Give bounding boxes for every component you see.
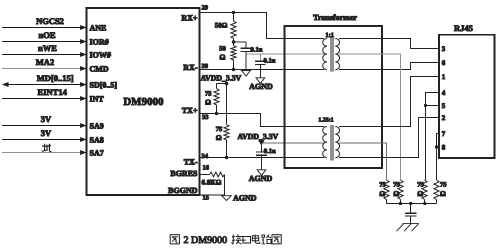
svg-text:5: 5 bbox=[442, 102, 446, 110]
signal nOE bbox=[2, 30, 87, 44]
svg-text:SD[0..5]: SD[0..5] bbox=[90, 81, 118, 90]
RJ45 connector box bbox=[439, 35, 495, 158]
RJ45 pin 1 bbox=[442, 73, 446, 81]
svg-text:Ω: Ω bbox=[220, 52, 226, 61]
RJ45 pin 7 bbox=[442, 130, 446, 138]
signal 3V (SA8) bbox=[2, 128, 87, 142]
transformer T1 secondary winding bbox=[335, 39, 339, 70]
capacitor C3 0.1u bbox=[256, 146, 276, 170]
U1 pin label BGGND bbox=[168, 186, 198, 195]
ground AGND at BGGND bbox=[222, 193, 257, 202]
wire R7 to bus bbox=[400, 200, 402, 204]
svg-text:DM9000: DM9000 bbox=[123, 96, 163, 108]
wire AVDD to R4 (crosses TX+) bbox=[226, 84, 228, 125]
IC U1 DM9000 body bbox=[87, 8, 200, 195]
wire RX+ pin29 to transformer T1 primary top bbox=[200, 13, 325, 39]
svg-text:TX+: TX+ bbox=[182, 106, 198, 115]
svg-text:75: 75 bbox=[205, 91, 212, 98]
wire R1 bottom stub bbox=[233, 39, 235, 43]
svg-text:6.8KΩ: 6.8KΩ bbox=[202, 179, 222, 187]
U1 pin number 16 bbox=[203, 164, 210, 171]
svg-text:0.1u: 0.1u bbox=[264, 58, 276, 65]
wire RX- pin30 to transformer T1 primary bottom bbox=[200, 69, 325, 71]
signal EINT14 bbox=[2, 87, 87, 101]
power tap arrow bbox=[258, 140, 264, 145]
wire termination bus bbox=[387, 203, 437, 205]
RJ45 pin 4 bbox=[442, 89, 446, 97]
U1 pin number 29 bbox=[202, 5, 209, 12]
ground AGND under C3 bbox=[249, 170, 273, 183]
bus MD[0..15] bbox=[2, 73, 87, 87]
junction node AVDD tap bbox=[225, 82, 229, 86]
svg-text:34: 34 bbox=[202, 153, 209, 160]
transformer T2 ratio label 1.25:1 bbox=[318, 118, 333, 124]
svg-text:75: 75 bbox=[379, 181, 386, 188]
resistor R8 75 ohm bbox=[417, 180, 427, 200]
capacitor C1 0.1u bbox=[241, 42, 263, 71]
RJ45 pin 8 bbox=[442, 144, 446, 152]
svg-text:50Ω: 50Ω bbox=[215, 21, 228, 29]
svg-text:8: 8 bbox=[442, 144, 446, 152]
junction node TX+ / R3 bbox=[215, 112, 218, 115]
wire T1 secondary bottom to RJ45 pin6 bbox=[339, 63, 439, 70]
junction node RX+ / R1 bbox=[232, 11, 235, 14]
svg-text:50: 50 bbox=[219, 45, 226, 52]
wire R1 top stub bbox=[233, 13, 235, 22]
svg-text:16: 16 bbox=[203, 164, 210, 171]
svg-text:Ω: Ω bbox=[205, 99, 211, 107]
transformer T1 primary winding bbox=[323, 39, 327, 70]
capacitor C2 0.1u bbox=[255, 54, 276, 78]
svg-text:Ω: Ω bbox=[379, 190, 385, 198]
U1 pin label ANE bbox=[90, 24, 107, 33]
U1 pin number 33 bbox=[202, 114, 209, 121]
svg-text:INT: INT bbox=[90, 95, 105, 104]
wire BGGND pin15 stub bbox=[200, 194, 225, 196]
wire R5 to BGGND bbox=[224, 175, 226, 196]
svg-text:AVDD_3.3V: AVDD_3.3V bbox=[238, 132, 279, 141]
svg-text:75: 75 bbox=[417, 181, 424, 188]
U1 pin number 15 bbox=[203, 194, 210, 201]
signal NGCS2 bbox=[2, 16, 87, 30]
wire T2 secondary center tap to R6 bbox=[339, 143, 387, 180]
svg-text:2 DM9000: 2 DM9000 bbox=[184, 235, 228, 246]
U1 pin label TX- bbox=[184, 158, 198, 167]
svg-text:RX-: RX- bbox=[183, 63, 198, 72]
svg-text:29: 29 bbox=[202, 5, 209, 12]
wire T2 primary center tap bbox=[262, 142, 325, 144]
svg-text:1.25:1: 1.25:1 bbox=[318, 118, 333, 124]
svg-text:RJ45: RJ45 bbox=[454, 23, 473, 33]
U1 pin label SA8 bbox=[90, 136, 104, 145]
svg-text:SA8: SA8 bbox=[90, 136, 104, 145]
U1 pin label RX- bbox=[183, 63, 198, 72]
caption 图2 DM9000 接口电路图 bbox=[170, 235, 281, 247]
svg-text:CMD: CMD bbox=[90, 65, 109, 74]
svg-text:SA9: SA9 bbox=[90, 122, 104, 131]
svg-text:Ω: Ω bbox=[216, 134, 222, 142]
svg-text:AVDD_3.3V: AVDD_3.3V bbox=[201, 73, 242, 82]
svg-text:2: 2 bbox=[442, 114, 446, 122]
svg-text:IOW#: IOW# bbox=[90, 51, 111, 60]
RJ45 pin 6 bbox=[442, 59, 446, 67]
transformer T2 primary winding bbox=[323, 127, 327, 158]
resistor R9 75 ohm bbox=[434, 180, 447, 200]
svg-text:nOE: nOE bbox=[38, 30, 55, 40]
svg-text:BGGND: BGGND bbox=[168, 186, 198, 195]
IC U1 label DM9000 bbox=[123, 96, 163, 108]
resistor R5 6.8K bbox=[202, 172, 225, 187]
transformer T1 core bbox=[331, 36, 333, 71]
svg-text:nWE: nWE bbox=[38, 43, 57, 53]
wire R9 to bus bbox=[436, 200, 438, 204]
U1 pin label BGRES bbox=[170, 169, 198, 178]
wire R8 to bus bbox=[424, 200, 426, 204]
ground AGND under C2 bbox=[249, 78, 273, 91]
svg-text:SA7: SA7 bbox=[90, 149, 104, 158]
svg-text:7: 7 bbox=[442, 130, 446, 138]
resistor R6 75 ohm bbox=[379, 180, 389, 200]
svg-text:1: 1 bbox=[442, 73, 446, 81]
junction node pin8 tie bbox=[435, 145, 438, 148]
svg-text:75: 75 bbox=[216, 126, 223, 133]
wire midpoint to C1 bbox=[234, 41, 247, 43]
junction node RX bias midpoint bbox=[232, 40, 235, 43]
svg-text:Ω: Ω bbox=[440, 190, 446, 198]
junction node bus x424.8 bbox=[423, 202, 426, 205]
wire R3 to TX+ line bbox=[216, 105, 218, 114]
ground chassis earth bbox=[397, 224, 420, 232]
wire bus to C4 bbox=[410, 204, 412, 214]
junction node bus x410.7 bbox=[409, 202, 412, 205]
U1 pin label SA9 bbox=[90, 122, 104, 131]
ground AGND under C1 bbox=[242, 71, 251, 77]
svg-text:MD[0..15]: MD[0..15] bbox=[37, 73, 74, 83]
signal 3V (SA9) bbox=[2, 114, 87, 128]
resistor R7 75 ohm bbox=[393, 180, 403, 200]
svg-text:AGND: AGND bbox=[249, 82, 273, 91]
wire R2 to RX- line bbox=[233, 42, 235, 70]
svg-text:33: 33 bbox=[202, 114, 209, 121]
wire T2 secondary bottom to RJ45 pin2 bbox=[339, 118, 439, 158]
resistor R1 50 ohm bbox=[215, 21, 236, 39]
transformer module label bbox=[313, 13, 357, 22]
junction node bus x400.5 bbox=[399, 202, 402, 205]
transformer module box bbox=[285, 26, 383, 168]
svg-text:NGCS2: NGCS2 bbox=[36, 16, 64, 26]
wire R6 to bus bbox=[386, 200, 388, 204]
wire TX- pin34 to transformer T2 primary bottom bbox=[200, 157, 325, 159]
junction node RX- / R2 bbox=[232, 68, 235, 71]
transformer T2 core bbox=[331, 125, 333, 161]
svg-text:Transformer: Transformer bbox=[313, 13, 357, 22]
svg-text:AGND: AGND bbox=[233, 193, 257, 202]
svg-text:0.1u: 0.1u bbox=[264, 148, 276, 155]
U1 pin label RX+ bbox=[181, 14, 198, 23]
U1 pin number 34 bbox=[202, 153, 209, 160]
junction node pin5 tie bbox=[424, 104, 427, 107]
svg-text:4: 4 bbox=[442, 89, 446, 97]
svg-text:IOR#: IOR# bbox=[90, 38, 109, 47]
RJ45 label bbox=[454, 23, 473, 33]
svg-text:TX-: TX- bbox=[184, 158, 198, 167]
wire TX+ pin33 to transformer T2 primary top bbox=[200, 114, 325, 127]
capacitor C4 bbox=[405, 213, 417, 223]
svg-text:AGND: AGND bbox=[249, 174, 273, 183]
wire T2 secondary top to RJ45 pin1 bbox=[339, 77, 439, 127]
svg-text:75: 75 bbox=[393, 181, 400, 188]
transformer T2 secondary winding bbox=[335, 127, 339, 158]
wire T1 secondary center tap to R7 bbox=[339, 54, 401, 180]
power rail label AVDD_3.3V (center tap) bbox=[238, 132, 279, 141]
wire R4 to TX- line bbox=[226, 140, 228, 158]
transformer T1 ratio label 1:1 bbox=[325, 32, 334, 39]
U1 pin label IOW# bbox=[90, 51, 111, 60]
svg-text:MA2: MA2 bbox=[36, 57, 54, 67]
wire BGRES pin16 stub bbox=[200, 174, 210, 176]
U1 pin label CMD bbox=[90, 65, 109, 74]
wire T1 primary center tap (bias) bbox=[246, 53, 324, 55]
svg-text:Ω: Ω bbox=[393, 190, 399, 198]
power rail label AVDD_3.3V (TX bias) bbox=[201, 73, 242, 82]
resistor R2 50 ohm bbox=[219, 45, 236, 61]
U1 pin label SD[0..5] bbox=[90, 81, 118, 90]
svg-text:3: 3 bbox=[442, 45, 446, 53]
resistor R4 75 ohm bbox=[216, 125, 229, 142]
RJ45 pin 2 bbox=[442, 114, 446, 122]
signal 地 (ground, SA7) bbox=[2, 144, 87, 155]
U1 pin label SA7 bbox=[90, 149, 104, 158]
svg-text:Ω: Ω bbox=[417, 190, 423, 198]
RJ45 pin 5 bbox=[442, 102, 446, 110]
svg-text:ANE: ANE bbox=[90, 24, 107, 33]
wire RJ45 pins 4-5 tie to R8 bbox=[426, 93, 440, 181]
wire RJ45 pins 7-8 tie to R9 bbox=[437, 134, 440, 181]
resistor R3 75 ohm bbox=[205, 89, 219, 107]
signal MA2 bbox=[2, 57, 87, 71]
wire T1 secondary top to RJ45 pin3 bbox=[339, 39, 439, 49]
svg-text:75: 75 bbox=[440, 181, 447, 188]
U1 pin label TX+ bbox=[182, 106, 198, 115]
svg-text:RX+: RX+ bbox=[181, 14, 198, 23]
svg-text:3V: 3V bbox=[41, 128, 52, 138]
signal nWE bbox=[2, 43, 87, 57]
U1 pin label IOR# bbox=[90, 38, 109, 47]
svg-text:0.1u: 0.1u bbox=[251, 47, 263, 54]
svg-text:BGRES: BGRES bbox=[170, 169, 198, 178]
U1 pin label INT bbox=[90, 95, 105, 104]
wire AVDD to R3 bbox=[217, 84, 227, 89]
junction node TX- / R4 bbox=[225, 156, 228, 159]
U1 pin number 30 bbox=[202, 63, 209, 70]
svg-text:3V: 3V bbox=[41, 114, 52, 124]
svg-text:6: 6 bbox=[442, 59, 446, 67]
RJ45 pin 3 bbox=[442, 45, 446, 53]
svg-text:EINT14: EINT14 bbox=[38, 87, 68, 97]
